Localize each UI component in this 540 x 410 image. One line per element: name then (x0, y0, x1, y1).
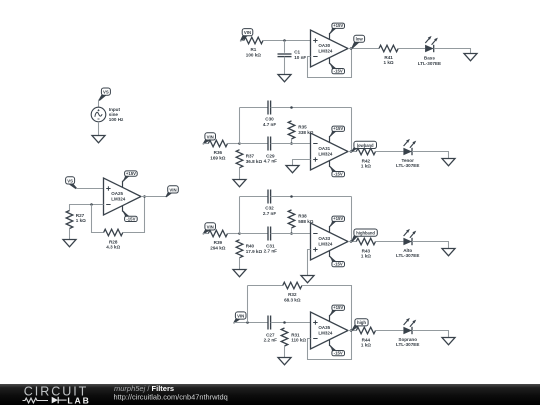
svg-text:Bass: Bass (424, 56, 435, 61)
resistor R37 (to ground) (236, 150, 243, 168)
flag VIN (buffer output) (165, 186, 178, 197)
wire: VS to OA25 + input (76, 188, 104, 190)
wire: R31 to ground (284, 346, 286, 358)
svg-text:+15V: +15V (333, 126, 343, 131)
wire: output to R44 (348, 330, 356, 332)
svg-text:C30: C30 (265, 117, 274, 122)
svg-text:4.7 nF: 4.7 nF (264, 159, 277, 164)
junction: row4 input node (246, 321, 249, 324)
wire: VS flag to source top (98, 100, 100, 108)
OA33 - input pin (313, 233, 317, 235)
ground (row1 right) (464, 54, 477, 61)
wire: R41 to LED D Bass (398, 48, 425, 50)
svg-text:1 kΩ: 1 kΩ (361, 254, 371, 259)
wire: R43 to LED (376, 241, 404, 243)
resistor R40 (to ground) (236, 240, 243, 258)
wire: input node up to top feedback (239, 197, 241, 234)
ground (row2 right) (442, 159, 455, 166)
svg-text:-15V: -15V (334, 262, 343, 267)
footer url (114, 393, 228, 402)
wire: R38 to minus wire (291, 228, 293, 234)
wire: OA25 output to VIN flag (141, 196, 166, 198)
label Bass LTL-307EE (418, 56, 441, 66)
svg-text:+15V: +15V (126, 171, 136, 176)
label R42 1 kΩ (361, 158, 371, 168)
flag VIN (row3 input) (202, 223, 215, 235)
ground (below R31) (278, 358, 291, 365)
op-amp OA31 (311, 133, 349, 170)
wire: C32 to top-right corner (271, 196, 352, 198)
ground (row3 right) (442, 249, 455, 256)
svg-text:Soprano: Soprano (398, 337, 417, 342)
ground (below C1) (278, 75, 291, 82)
svg-text:R43: R43 (362, 248, 371, 253)
OA25 + input pin (106, 186, 110, 190)
flag lowband (351, 141, 376, 151)
svg-text:2.2 nF: 2.2 nF (264, 338, 277, 343)
svg-text:C31: C31 (266, 243, 275, 248)
resistor R41 (379, 45, 398, 52)
svg-text:1 kΩ: 1 kΩ (361, 164, 371, 169)
op-amp OA25 (104, 178, 142, 215)
svg-text:-15V: -15V (334, 172, 343, 177)
svg-text:1 kΩ: 1 kΩ (361, 343, 371, 348)
power flag +15V (OA25) (122, 171, 137, 188)
svg-text:C29: C29 (266, 153, 275, 158)
label C30 4.7 nF (263, 117, 276, 127)
OA25 - input pin (106, 204, 110, 206)
svg-text:100 kΩ: 100 kΩ (246, 52, 261, 57)
ground (row4 right) (442, 338, 455, 345)
wire: R42 to LED (376, 151, 404, 153)
op-amp OA33 (311, 223, 349, 260)
junction: input node (row2) (238, 142, 241, 145)
resistor R1 (244, 37, 263, 44)
svg-text:VIN: VIN (237, 313, 244, 318)
svg-text:R28: R28 (109, 239, 118, 244)
wire: C30 to top-right corner (271, 107, 352, 109)
wire: C29 to OA - input (271, 143, 311, 145)
svg-text:VIN: VIN (244, 30, 251, 35)
LED Soprano (LTL-307EE) (403, 318, 416, 334)
resistor R43 (356, 238, 375, 245)
wire: VIN to C27 (234, 322, 269, 324)
label Soprano LTL-307EE (396, 337, 419, 347)
resistor R28 (104, 229, 123, 236)
OA33 + input pin (313, 247, 317, 251)
svg-text:R44: R44 (362, 337, 371, 342)
resistor R36 (208, 140, 227, 147)
label R37 36.8 kΩ (246, 154, 263, 164)
label C29 4.7 nF (264, 153, 277, 163)
wire: output to R42 (348, 151, 356, 153)
ground (OA31 + input) (286, 166, 299, 173)
svg-text:R40: R40 (246, 244, 255, 249)
svg-text:1 kΩ: 1 kΩ (384, 60, 394, 65)
wire: R36 to input node (228, 143, 240, 145)
wire: C1 to ground (284, 57, 286, 75)
label R38 588 kΩ (298, 214, 313, 224)
svg-text:Tenor: Tenor (401, 158, 414, 163)
label OA31 LM324 (318, 146, 333, 156)
capacitor C30 (top feedback) (268, 101, 271, 115)
LED Bass (LTL-307EE) (425, 36, 438, 52)
svg-text:LM324: LM324 (318, 330, 333, 335)
voltage source V1 (sine) (91, 107, 106, 122)
power flag -15V (OA33) (329, 251, 344, 267)
flag highband (351, 229, 377, 242)
power flag +15V (OA33) (329, 216, 344, 232)
wire: OA31 + input to ground (293, 160, 311, 166)
svg-text:-15V: -15V (126, 216, 135, 221)
label R41 1 kΩ (384, 55, 394, 65)
wire: LED to ground (row3) (412, 242, 449, 249)
svg-text:high: high (357, 320, 366, 325)
resistor R27 (66, 211, 73, 229)
svg-text:OA30: OA30 (318, 43, 330, 48)
svg-text:VIN: VIN (169, 187, 176, 192)
op-amp OA30 (311, 30, 349, 67)
logo resistor symbol (23, 398, 49, 403)
ground (below R37) (233, 180, 246, 187)
wire: input node to C31 (240, 233, 269, 235)
wire: R1 to OA30 + input (263, 40, 311, 42)
svg-text:Input: Input (109, 107, 121, 112)
junction: R38 top node (290, 195, 293, 198)
wire: R27 to ground (69, 229, 71, 240)
svg-text:10 nF: 10 nF (294, 55, 306, 60)
op-amp OA35 (311, 312, 349, 349)
junction: C27/R31 node (283, 321, 286, 324)
label C31 2.7 nF (264, 243, 277, 253)
junction: OA25 feedback node (90, 203, 93, 206)
OA31 - input pin (313, 143, 317, 145)
capacitor C31 (series) (268, 227, 271, 241)
resistor R31 (to ground) (281, 328, 288, 346)
junction: R35 top node (290, 106, 293, 109)
wire: R37 to ground (239, 168, 241, 180)
capacitor C29 (series) (268, 137, 271, 151)
svg-text:R31: R31 (291, 332, 300, 337)
svg-text:LTL-307EE: LTL-307EE (396, 342, 419, 347)
wire: R40 to ground (239, 258, 241, 270)
svg-text:36.8 kΩ: 36.8 kΩ (246, 159, 263, 164)
label R40 17.9 kΩ (246, 244, 263, 254)
svg-text:LTL-307EE: LTL-307EE (396, 253, 419, 258)
wire: input node up to R32 (247, 286, 249, 323)
label R43 1 kΩ (361, 248, 371, 258)
label OA35 LM324 (318, 325, 333, 335)
wire: R32 to output (row4) (302, 286, 352, 331)
wire: source bottom to ground (98, 122, 100, 136)
ground (below R27) (63, 240, 76, 247)
svg-text:LM324: LM324 (318, 48, 333, 53)
flag VIN (row4 input) (233, 312, 246, 324)
wire: feedback node down and to R28 (92, 205, 104, 233)
label C1 10 nF (294, 50, 306, 60)
svg-text:LTL-307EE: LTL-307EE (418, 61, 441, 66)
OA35 + input pin (313, 320, 317, 324)
svg-text:LM324: LM324 (318, 241, 333, 246)
svg-text:R35: R35 (298, 125, 307, 130)
label R36 169 kΩ (210, 150, 225, 160)
svg-text:2.7 nF: 2.7 nF (263, 211, 276, 216)
svg-text:LTL-307EE: LTL-307EE (396, 163, 419, 168)
wire: top feedback left segment (240, 196, 269, 198)
svg-text:LAB: LAB (67, 395, 90, 405)
OA30 - input pin (313, 56, 317, 58)
wire: top feedback down to output (351, 197, 353, 242)
wire: OA30 output to R41 (348, 48, 379, 50)
svg-text:R32: R32 (288, 292, 297, 297)
wire: OA30 feedback loop (308, 49, 352, 78)
OA31 + input pin (313, 157, 317, 161)
svg-text:sine: sine (109, 112, 119, 117)
resistor R38 (feedback) (288, 210, 295, 228)
ground (below V1) (92, 136, 105, 143)
label Tenor LTL-307EE (396, 158, 419, 168)
label OA33 LM324 (318, 236, 333, 246)
wire: VIN to R36 (203, 143, 208, 145)
junction: input node (row3) (238, 232, 241, 235)
voltage source V1 flag VS (98, 88, 110, 101)
wire: R28 to OA25 output (123, 197, 145, 233)
CircuitLab logo wordmark (24, 384, 89, 399)
resistor R39 (208, 230, 227, 237)
flag low (351, 35, 364, 48)
junction: output node (row2) (350, 150, 353, 153)
junction: R38 bottom node (290, 232, 293, 235)
capacitor C32 (top feedback) (268, 190, 271, 204)
svg-text:OA33: OA33 (318, 236, 330, 241)
svg-text:lowband: lowband (357, 143, 374, 148)
wire: LED to ground (row2) (412, 152, 449, 159)
svg-text:OA35: OA35 (318, 325, 330, 330)
ground (OA33 + input) (301, 276, 314, 283)
LED Tenor (LTL-307EE) (403, 139, 416, 155)
logo diode symbol (52, 397, 67, 404)
power flag -15V (OA31) (329, 161, 344, 177)
flag VS (buffer input) (66, 177, 78, 189)
svg-text:highband: highband (356, 231, 375, 236)
svg-text:R39: R39 (214, 240, 223, 245)
label R35 338 kΩ (298, 125, 313, 135)
svg-text:169 kΩ: 169 kΩ (210, 155, 225, 160)
wire: OA33 + input to ground (308, 250, 311, 276)
wire: output to R43 (348, 241, 356, 243)
logo LAB text (67, 395, 90, 405)
label V1: Input sine 100 Hz (109, 107, 124, 122)
svg-text:1 kΩ: 1 kΩ (76, 218, 86, 223)
label R44 1 kΩ (361, 337, 371, 347)
capacitor C27 (series) (268, 316, 271, 330)
wire: VIN to R39 (203, 233, 208, 235)
power flag +15V (OA31) (329, 126, 344, 142)
svg-text:R27: R27 (76, 213, 85, 218)
power flag -15V (OA30) (329, 58, 344, 74)
wire: LED to ground (row4) (412, 331, 449, 338)
power flag -15V (OA35) (329, 340, 344, 356)
svg-text:4.3 kΩ: 4.3 kΩ (106, 245, 120, 250)
label R39 294 kΩ (210, 240, 225, 250)
svg-text:LM324: LM324 (111, 196, 126, 201)
svg-text:68.3 kΩ: 68.3 kΩ (284, 297, 301, 302)
svg-text:LM324: LM324 (318, 151, 333, 156)
label Alto LTL-307EE (396, 248, 419, 258)
svg-text:VS: VS (103, 90, 109, 95)
label C27 2.2 nF (264, 332, 277, 342)
wire: top feedback left segment (240, 107, 269, 109)
svg-text:+15V: +15V (333, 23, 343, 28)
label R31 110 kΩ (291, 332, 306, 342)
resistor R32 (feedback) (283, 282, 302, 289)
svg-text:OA31: OA31 (318, 146, 330, 151)
svg-text:low: low (356, 37, 364, 42)
wire: VIN to R1 (240, 40, 244, 42)
capacitor C1 (278, 54, 292, 57)
svg-text:+15V: +15V (333, 305, 343, 310)
resistor R42 (356, 148, 375, 155)
svg-text:110 kΩ: 110 kΩ (291, 338, 306, 343)
label OA25 LM324 (111, 191, 126, 201)
wire: OA25 - input to R27 node (70, 205, 104, 211)
svg-text:-15V: -15V (334, 69, 343, 74)
svg-text:OA25: OA25 (111, 191, 123, 196)
svg-text:C27: C27 (266, 332, 275, 337)
junction: OA30 output node (350, 47, 353, 50)
svg-text:R1: R1 (250, 47, 256, 52)
flag high (352, 319, 369, 331)
label OA30 LM324 (318, 43, 333, 53)
footer title murph5ej / Filters (114, 384, 174, 393)
svg-text:C32: C32 (265, 206, 274, 211)
wire: C27 to OA35 + input (271, 322, 311, 324)
resistor R35 (feedback) (288, 121, 295, 139)
flag VIN (row1 input) (240, 29, 253, 42)
power flag -15V (OA25) (122, 206, 137, 222)
wire: node to C1 (284, 41, 286, 53)
label C32 2.7 nF (263, 206, 276, 216)
label R32 68.3 kΩ (284, 292, 301, 302)
label R27 1 kΩ (76, 213, 86, 223)
wire: R35 to minus wire (291, 139, 293, 144)
power flag +15V (OA35) (329, 305, 344, 321)
svg-text:2.7 nF: 2.7 nF (264, 249, 277, 254)
label R28 4.3 kΩ (106, 239, 120, 249)
svg-text:R38: R38 (298, 214, 307, 219)
OA30 + input pin (313, 38, 317, 42)
svg-text:R37: R37 (246, 154, 255, 159)
svg-text:17.9 kΩ: 17.9 kΩ (246, 249, 263, 254)
resistor R44 (356, 327, 375, 334)
wire: R39 to input node (228, 233, 240, 235)
svg-text:100 Hz: 100 Hz (109, 117, 124, 122)
junction: R35 bottom node (290, 142, 293, 145)
junction: output node (row3) (350, 240, 353, 243)
wire: OA35 feedback loop (308, 331, 352, 360)
svg-text:R36: R36 (214, 150, 223, 155)
svg-text:C1: C1 (294, 50, 300, 55)
junction: OA35 output node (350, 329, 353, 332)
svg-text:+15V: +15V (333, 216, 343, 221)
svg-text:4.7 nF: 4.7 nF (263, 122, 276, 127)
wire: top feedback down to output (351, 108, 353, 152)
svg-text:Alto: Alto (403, 248, 412, 253)
wire: input node up to top feedback (239, 108, 241, 144)
label R1 100 kΩ (246, 47, 261, 57)
wire: input node to C29 (240, 143, 269, 145)
svg-text:VIN: VIN (207, 224, 214, 229)
svg-text:R41: R41 (384, 55, 393, 60)
svg-text:294 kΩ: 294 kΩ (210, 245, 225, 250)
svg-text:http://circuitlab.com/cnb47nth: http://circuitlab.com/cnb47nthrwtdq (114, 393, 228, 402)
LED Alto (LTL-307EE) (403, 229, 416, 245)
ground (below R40) (233, 270, 246, 277)
flag VIN (row2 input) (202, 133, 215, 145)
wire: C31 to OA - input (271, 233, 311, 235)
junction: R1/C1 node (283, 39, 286, 42)
wire: LED to ground (row1) (434, 49, 471, 54)
wire: R44 to LED Soprano (376, 330, 404, 332)
svg-text:VIN: VIN (207, 134, 214, 139)
svg-text:R42: R42 (362, 158, 371, 163)
OA35 - input pin (313, 338, 317, 340)
wire: top feedback left segment (row4) (248, 285, 283, 287)
svg-text:-15V: -15V (334, 351, 343, 356)
junction: OA25 output node (143, 195, 146, 198)
svg-text:VS: VS (67, 178, 73, 183)
power flag +15V (OA30) (329, 23, 344, 39)
